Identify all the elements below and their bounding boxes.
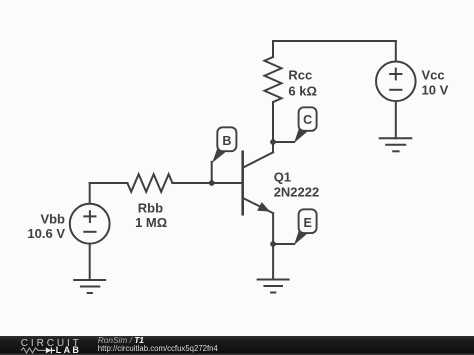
wire: Rcc bottom lead to collector node — [272, 102, 274, 142]
node flag E box — [299, 209, 317, 233]
svg-text:Rbb: Rbb — [138, 200, 163, 215]
wire: Vbb bottom lead — [89, 244, 91, 280]
wire: node C horizontal stub — [273, 141, 294, 143]
junction node B dot — [209, 180, 215, 186]
voltage source V1 Vbb circle — [70, 204, 110, 244]
node flag B tail — [212, 148, 225, 163]
svg-text:Vcc: Vcc — [422, 68, 445, 83]
node flag E tail — [294, 229, 307, 245]
wire: Rcc top lead — [272, 41, 274, 57]
wire: emitter vertical — [272, 213, 274, 244]
resistor Rcc body — [265, 57, 282, 102]
svg-text:Rcc: Rcc — [288, 68, 312, 83]
Vcc minus sign — [389, 89, 402, 91]
wire: collector vertical — [272, 142, 274, 152]
voltage source V2 Vcc circle — [376, 62, 416, 102]
ground for Vcc — [379, 138, 413, 151]
ground for emitter — [257, 280, 290, 293]
junction node E dot — [270, 241, 276, 247]
wire: base wire right of Rbb — [172, 182, 242, 184]
svg-text:1 MΩ: 1 MΩ — [135, 215, 167, 230]
wire: Vbb top lead — [89, 183, 91, 204]
wire: emitter to ground — [272, 244, 274, 280]
svg-text:E: E — [304, 216, 312, 230]
transistor Q1 emitter arrow — [258, 203, 269, 211]
Vbb plus sign — [83, 210, 96, 223]
svg-text:6 kΩ: 6 kΩ — [288, 83, 317, 98]
svg-text:B: B — [222, 134, 231, 148]
svg-text:10.6 V: 10.6 V — [27, 226, 65, 241]
wire: Vcc bottom lead — [395, 101, 397, 138]
svg-text:Vbb: Vbb — [40, 212, 65, 227]
svg-text:http://circuitlab.com/ccfux5q2: http://circuitlab.com/ccfux5q272fn4 — [98, 344, 219, 353]
svg-text:Q1: Q1 — [274, 169, 291, 184]
CircuitLab logo resistor squiggle — [21, 348, 46, 353]
node flag C tail — [294, 127, 307, 143]
wire: node E horizontal stub — [273, 243, 294, 245]
node flag B box — [217, 127, 236, 151]
transistor Q1 collector diagonal — [243, 152, 273, 167]
Vcc plus sign — [389, 68, 402, 81]
node flag C box — [299, 107, 317, 131]
ground for Vbb — [73, 280, 106, 293]
svg-text:2N2222: 2N2222 — [274, 184, 320, 199]
wire: base wire left of Rbb — [90, 182, 128, 184]
wire: top rail from Rcc to Vcc — [273, 40, 396, 42]
transistor Q1 base bar — [241, 152, 244, 214]
wire: Vcc top lead — [395, 41, 397, 62]
wire: node B vertical stub — [211, 162, 213, 183]
resistor Rbb body — [127, 174, 172, 192]
svg-text:LAB: LAB — [56, 345, 81, 355]
svg-text:10 V: 10 V — [422, 83, 449, 98]
CircuitLab logo diode — [46, 347, 52, 353]
svg-text:C: C — [303, 113, 312, 127]
Vbb minus sign — [83, 231, 96, 233]
junction node C dot — [270, 139, 276, 145]
transistor Q1 emitter diagonal — [243, 198, 273, 213]
